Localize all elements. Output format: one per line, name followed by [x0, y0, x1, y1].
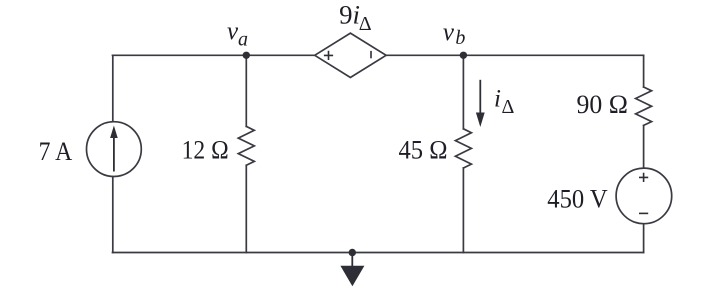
voltage source V1 minus sign — [639, 212, 648, 214]
wire 45-ohm branch upper (node b down to resistor) — [462, 55, 464, 129]
svg-text:v: v — [443, 19, 455, 46]
resistor R 45 ohm zigzag — [455, 129, 471, 168]
svg-text:i: i — [494, 86, 501, 113]
node b junction dot — [460, 52, 467, 59]
resistor R 90 ohm zigzag — [636, 87, 652, 125]
wire top right: diamond right terminal to right branch — [386, 54, 643, 56]
svg-text:12 Ω: 12 Ω — [182, 135, 229, 165]
wire left vertical upper (top corner to 7A source) — [112, 55, 114, 121]
wire 12-ohm branch upper (node a down to resistor) — [245, 55, 247, 126]
svg-text:Δ: Δ — [502, 96, 515, 118]
ground stem wire — [351, 253, 353, 267]
voltage source V1 450V circle — [616, 168, 672, 224]
ground junction dot — [349, 249, 356, 256]
dependent source U1 9i-delta diamond — [315, 33, 386, 77]
wire 45-ohm branch lower (resistor to bottom rail) — [462, 168, 464, 253]
voltage source V1 plus sign — [639, 173, 648, 182]
wire left vertical lower (7A source to bottom corner) — [112, 177, 114, 252]
svg-text:9i: 9i — [339, 0, 360, 30]
current source I1 7A circle — [87, 122, 142, 177]
wire bottom rail — [113, 252, 644, 254]
wire 12-ohm branch lower (resistor to bottom rail) — [245, 165, 247, 252]
svg-text:45 Ω: 45 Ω — [399, 135, 448, 165]
wire right branch upper (top corner to 90-ohm resistor) — [643, 55, 645, 87]
wire top left: left branch to diamond left terminal — [113, 54, 315, 56]
node a junction dot — [243, 52, 250, 59]
current source I1 arrow (7A, pointing up) — [110, 126, 118, 172]
resistor R 12 ohm zigzag — [238, 126, 254, 165]
wire right branch lower (450V source to bottom rail) — [643, 224, 645, 252]
current arrow i-delta (downward, beside 45-ohm) — [476, 80, 485, 127]
dependent source minus sign (rotated, vertical tick) — [370, 51, 372, 58]
ground symbol (solid triangle) — [340, 266, 364, 286]
svg-text:a: a — [238, 28, 248, 50]
svg-text:450 V: 450 V — [547, 184, 608, 214]
wire right branch middle (90-ohm resistor to 450V source) — [643, 125, 645, 167]
svg-text:Δ: Δ — [359, 13, 372, 35]
svg-text:b: b — [455, 27, 465, 49]
dependent source plus sign — [324, 51, 333, 60]
svg-text:7 A: 7 A — [39, 136, 73, 166]
svg-text:90 Ω: 90 Ω — [577, 89, 628, 119]
